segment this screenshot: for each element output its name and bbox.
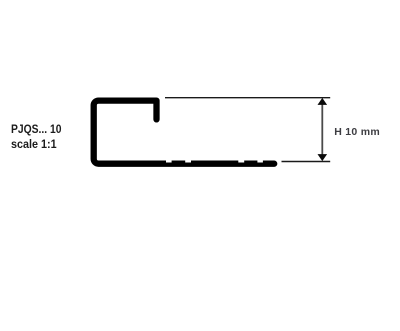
label H 10 mm xyxy=(334,126,380,138)
label scale 1:1 xyxy=(11,137,57,151)
arrowhead top xyxy=(318,98,328,105)
dimension line vertical xyxy=(321,104,323,156)
punched notch 3 xyxy=(238,159,244,163)
bottom extension line xyxy=(282,161,331,163)
label PJQS... 10 xyxy=(11,122,61,136)
arrowhead bottom xyxy=(318,154,328,161)
punched notch 4 xyxy=(257,159,263,163)
top extension line xyxy=(165,97,330,99)
punched notch 2 xyxy=(185,159,191,163)
profile body (square edge trim cross-section) xyxy=(94,101,275,164)
punched notch 1 xyxy=(166,159,172,163)
